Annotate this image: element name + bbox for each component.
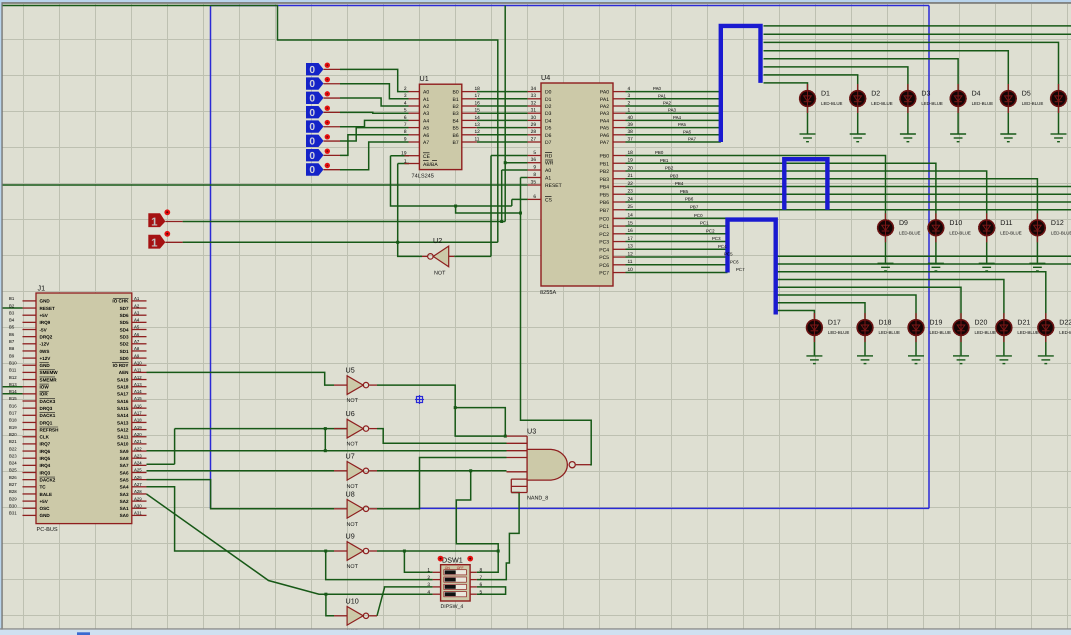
logic state 4 pin stub bbox=[324, 126, 341, 128]
svg-text:5: 5 bbox=[480, 589, 483, 595]
svg-text:IRQ4: IRQ4 bbox=[40, 463, 51, 468]
wire U9 output row bbox=[377, 550, 498, 552]
svg-text:ON: ON bbox=[445, 566, 451, 570]
wire PA bus exit 1 off-sheet bbox=[764, 33, 1071, 35]
wire U4 PC6 to bus bbox=[626, 264, 728, 266]
svg-text:PC5: PC5 bbox=[724, 252, 733, 257]
svg-text:6: 6 bbox=[533, 194, 536, 200]
svg-text:A5: A5 bbox=[423, 126, 429, 132]
DSW1 switch rockers bbox=[444, 570, 467, 597]
svg-text:30: 30 bbox=[531, 115, 537, 121]
svg-text:B18: B18 bbox=[9, 418, 17, 423]
svg-text:SA9: SA9 bbox=[120, 449, 129, 454]
U4 pin D0 stub bbox=[528, 91, 541, 93]
wire NAND_8 output to U4 A1 bbox=[521, 178, 592, 465]
svg-text:RESET: RESET bbox=[545, 183, 562, 189]
J1 pin B8 stub bbox=[23, 350, 37, 352]
J1 pin B9 stub bbox=[23, 357, 37, 359]
svg-text:PA1: PA1 bbox=[600, 97, 609, 103]
logic state input 0 pin dot bbox=[325, 62, 330, 67]
LED D18 anode stub bbox=[864, 313, 866, 320]
J1 pin A26 stub bbox=[132, 479, 147, 481]
wire LED D12 cathode to ground bbox=[1036, 236, 1038, 263]
logic state 0 pin stub bbox=[324, 68, 341, 70]
svg-text:D19: D19 bbox=[930, 320, 943, 327]
svg-text:B5: B5 bbox=[9, 325, 15, 330]
LED D19 anode stub bbox=[915, 313, 917, 320]
wire U5 net parallel jog to NAND in1 bbox=[455, 408, 505, 437]
wire J1 IOW pin B13 bbox=[3, 386, 23, 388]
svg-text:37: 37 bbox=[628, 136, 634, 142]
wire LED D18 cathode to ground bbox=[864, 336, 866, 356]
svg-text:3: 3 bbox=[628, 93, 631, 99]
wire U4 PB4 off-sheet bbox=[626, 186, 1071, 188]
svg-text:A29: A29 bbox=[134, 496, 142, 501]
svg-text:20: 20 bbox=[628, 165, 634, 171]
svg-text:PC7: PC7 bbox=[736, 267, 745, 272]
U1 pin A2 stub bbox=[409, 105, 420, 107]
wire U4 PA5 to bus bbox=[626, 127, 721, 129]
wire U4 PC2 to bus bbox=[626, 233, 728, 235]
J1 pin A20 stub bbox=[132, 436, 147, 438]
svg-text:B28: B28 bbox=[9, 489, 17, 494]
U4 pin PA6 stub bbox=[613, 134, 626, 136]
svg-text:5: 5 bbox=[404, 108, 407, 114]
svg-text:13: 13 bbox=[475, 122, 481, 128]
wire PA bus exit to LED D6 bbox=[764, 42, 1059, 90]
inverter U10 (NOT gate) bbox=[347, 607, 363, 626]
switch DSW1 DIPSW_4 body bbox=[441, 565, 471, 601]
inverter U9 (NOT gate) bbox=[347, 542, 363, 561]
J1 pin B6 stub bbox=[23, 336, 37, 338]
svg-text:LED-BLUE: LED-BLUE bbox=[930, 330, 952, 335]
svg-text:B8: B8 bbox=[9, 346, 15, 351]
svg-text:11: 11 bbox=[475, 136, 480, 142]
J1 pin B7 stub bbox=[23, 343, 37, 345]
wire U1 B4 to U4 D4 bbox=[477, 119, 528, 121]
svg-text:SA13: SA13 bbox=[117, 420, 129, 425]
svg-text:NOT: NOT bbox=[347, 398, 359, 404]
U1 pin CE stub bbox=[405, 155, 420, 157]
U4 pin PB2 stub bbox=[613, 170, 626, 172]
wire U4 PC7 to bus bbox=[626, 272, 728, 274]
svg-text:NOT: NOT bbox=[347, 442, 359, 448]
wire U4 PB1 to LED D10 bbox=[626, 163, 936, 219]
logic state input 3 (blue 0 box) bbox=[306, 106, 324, 118]
svg-text:LED-BLUE: LED-BLUE bbox=[899, 230, 921, 235]
logic state input 7 (blue 0 box) bbox=[306, 163, 324, 175]
U1 pin B6 stub bbox=[462, 134, 477, 136]
LED D12 anode stub bbox=[1036, 213, 1038, 220]
svg-text:B4: B4 bbox=[9, 318, 15, 323]
svg-text:A5: A5 bbox=[134, 325, 140, 330]
U1 pin B5 stub bbox=[462, 127, 477, 129]
svg-text:2: 2 bbox=[628, 100, 631, 106]
svg-text:0WS: 0WS bbox=[40, 349, 50, 354]
DSW1 pin numbers bbox=[427, 568, 482, 596]
wire U1 B0 to U4 D0 bbox=[477, 91, 528, 93]
svg-text:15: 15 bbox=[475, 108, 481, 114]
svg-text:SD1: SD1 bbox=[120, 349, 129, 354]
svg-text:A2: A2 bbox=[134, 303, 140, 308]
U1 pin A5 stub bbox=[409, 127, 420, 129]
U1 pin B3 stub bbox=[462, 112, 477, 114]
svg-text:NAND_8: NAND_8 bbox=[527, 496, 548, 502]
J1 pin A29 stub bbox=[132, 500, 147, 502]
svg-text:SA18: SA18 bbox=[117, 385, 129, 390]
U4 port wire net labels bbox=[653, 86, 745, 272]
svg-text:PB5: PB5 bbox=[680, 189, 689, 194]
buffer U1 74LS245 body bbox=[419, 84, 461, 169]
J1 pin B3 stub bbox=[23, 314, 37, 316]
U4 pin PC7 stub bbox=[613, 272, 626, 274]
U4 pin D6 stub bbox=[528, 134, 541, 136]
inverter U6 (NOT gate) bbox=[347, 419, 363, 438]
svg-text:PC3: PC3 bbox=[599, 240, 609, 246]
svg-text:SD5: SD5 bbox=[120, 320, 129, 325]
wire U4 A1 pin stub row bbox=[521, 177, 528, 179]
svg-text:DIPSW_4: DIPSW_4 bbox=[441, 604, 464, 610]
wire junction dots bbox=[324, 161, 522, 596]
LED D1 cathode stub bbox=[807, 107, 809, 114]
ground symbol for D4 bbox=[950, 134, 966, 142]
wire U5 output to NAND in1 bbox=[377, 385, 507, 436]
svg-text:LED-BLUE: LED-BLUE bbox=[949, 230, 971, 235]
LED D20 anode stub bbox=[960, 313, 962, 320]
svg-text:2: 2 bbox=[427, 575, 430, 581]
svg-text:B10: B10 bbox=[9, 360, 17, 365]
svg-text:SA15: SA15 bbox=[117, 406, 129, 411]
wire PA bus exit to LED D2 bbox=[764, 75, 858, 90]
svg-text:4: 4 bbox=[404, 100, 407, 106]
svg-text:PA6: PA6 bbox=[600, 133, 609, 139]
wire logic state 0 to U1 A0 bbox=[340, 69, 409, 91]
svg-text:A1: A1 bbox=[545, 176, 551, 182]
wire SA4/A27 to U9 input bbox=[147, 487, 335, 551]
svg-text:SA12: SA12 bbox=[117, 427, 129, 432]
svg-text:IRQ6: IRQ6 bbox=[40, 449, 51, 454]
wire U4 PC5 to bus bbox=[626, 256, 728, 258]
wire J1 RESET pin B2 bbox=[3, 307, 23, 309]
wire U1 B7 to U4 D7 bbox=[477, 141, 528, 143]
svg-text:PA3: PA3 bbox=[600, 111, 609, 117]
svg-text:-5V: -5V bbox=[40, 327, 48, 332]
logic state 2 pin stub bbox=[324, 97, 341, 99]
svg-text:A0: A0 bbox=[545, 168, 551, 174]
svg-text:DRQ3: DRQ3 bbox=[40, 406, 53, 411]
svg-text:3: 3 bbox=[404, 93, 407, 99]
svg-text:B20: B20 bbox=[9, 432, 17, 437]
LED D22 anode stub bbox=[1045, 313, 1047, 320]
bus PC (thick blue) bbox=[728, 220, 776, 315]
svg-text:PC0: PC0 bbox=[599, 216, 609, 222]
svg-text:OFF: OFF bbox=[457, 566, 464, 570]
J1 pin A22 stub bbox=[132, 450, 147, 452]
ground symbol for D19 bbox=[908, 356, 924, 364]
J1 pin A30 stub bbox=[132, 507, 147, 509]
svg-text:SD2: SD2 bbox=[120, 342, 129, 347]
svg-text:29: 29 bbox=[531, 122, 537, 128]
svg-text:B3: B3 bbox=[9, 310, 15, 315]
svg-text:D1: D1 bbox=[821, 91, 830, 98]
U4 pin D1 stub bbox=[528, 98, 541, 100]
wire U4 PA2 to bus bbox=[626, 105, 721, 107]
svg-text:A14: A14 bbox=[134, 389, 142, 394]
svg-text:A22: A22 bbox=[134, 446, 142, 451]
svg-text:LED-BLUE: LED-BLUE bbox=[972, 101, 994, 106]
DSW1 pin 3 stub bbox=[433, 586, 441, 588]
LED D17 (LED-BLUE) bbox=[806, 319, 822, 335]
U1 pin AB/BA stub bbox=[405, 163, 420, 165]
svg-text:39: 39 bbox=[628, 122, 634, 128]
wire logic probe 1 row bbox=[183, 221, 506, 223]
wire PC bus exit to LED D19 bbox=[776, 295, 916, 319]
svg-text:A26: A26 bbox=[134, 475, 142, 480]
svg-text:SA2: SA2 bbox=[120, 499, 129, 504]
logic probe 2 (red 1 box) bbox=[148, 235, 165, 249]
logic state input 3 pin dot bbox=[325, 105, 330, 110]
logic state input 5 pin dot bbox=[325, 134, 330, 139]
svg-text:PB7: PB7 bbox=[600, 208, 610, 214]
wire PA bus exit to LED D5 bbox=[764, 51, 1009, 91]
wire AEN to U5 input bbox=[147, 372, 335, 385]
svg-text:A4: A4 bbox=[423, 118, 429, 124]
U8 output stub bbox=[369, 508, 377, 510]
svg-text:17: 17 bbox=[628, 236, 634, 242]
svg-text:PC6: PC6 bbox=[599, 263, 609, 269]
svg-text:LED-BLUE: LED-BLUE bbox=[1059, 330, 1071, 335]
wire CS riser bbox=[511, 199, 513, 206]
svg-text:PB3: PB3 bbox=[670, 173, 679, 178]
U4 pin PA3 stub bbox=[613, 112, 626, 114]
svg-text:4: 4 bbox=[628, 86, 631, 92]
J1 pin B15 stub bbox=[23, 400, 37, 402]
svg-text:B14: B14 bbox=[9, 389, 17, 394]
svg-text:PC7: PC7 bbox=[599, 271, 609, 277]
wire logic state 2 to U1 A2 bbox=[340, 98, 409, 106]
svg-text:A0: A0 bbox=[423, 90, 429, 96]
wire U1 B2 to U4 D2 bbox=[477, 105, 528, 107]
svg-text:B13: B13 bbox=[9, 382, 17, 387]
svg-text:A11: A11 bbox=[134, 368, 142, 373]
svg-text:A17: A17 bbox=[134, 411, 142, 416]
J1 pin B31 stub bbox=[23, 514, 37, 516]
U4 pin D7 stub bbox=[528, 141, 541, 143]
wire PC bus exit to LED D21 bbox=[776, 280, 1004, 320]
J1 pin A14 stub bbox=[132, 393, 147, 395]
svg-text:PC2: PC2 bbox=[599, 232, 609, 238]
logic state 7 pin stub bbox=[324, 169, 341, 171]
svg-text:U2: U2 bbox=[433, 236, 442, 245]
J1 pin A6 stub bbox=[132, 336, 147, 338]
svg-text:SA17: SA17 bbox=[117, 392, 129, 397]
svg-text:OSC: OSC bbox=[40, 506, 51, 511]
svg-text:A16: A16 bbox=[134, 403, 142, 408]
J1 pin B14 stub bbox=[23, 393, 37, 395]
svg-text:B11: B11 bbox=[9, 368, 17, 373]
svg-text:NOT: NOT bbox=[347, 522, 359, 528]
svg-text:D6: D6 bbox=[545, 133, 552, 139]
svg-text:IOR: IOR bbox=[40, 392, 49, 397]
svg-text:7: 7 bbox=[404, 122, 407, 128]
logic state input 0 (blue 0 box) bbox=[306, 63, 324, 75]
wire U7 output branch to DSW1 pin 8 bbox=[456, 471, 498, 573]
svg-text:U9: U9 bbox=[346, 532, 355, 541]
LED D2 anode stub bbox=[857, 84, 859, 91]
svg-text:IOW: IOW bbox=[40, 385, 50, 390]
svg-text:B21: B21 bbox=[9, 439, 17, 444]
svg-text:11: 11 bbox=[628, 259, 633, 265]
ground symbol for D9 bbox=[878, 263, 894, 271]
J1 pin B18 stub bbox=[23, 421, 37, 423]
J1 pin A31 stub bbox=[132, 514, 147, 516]
svg-text:13: 13 bbox=[628, 244, 634, 250]
wire U4 PB6 off-sheet bbox=[626, 201, 1071, 203]
wire PA bus exit 0 off-sheet bbox=[764, 25, 1071, 27]
logic state 3 pin stub bbox=[324, 111, 341, 113]
wire RD vertical down to U2 input bbox=[490, 156, 492, 257]
svg-text:17: 17 bbox=[475, 93, 481, 99]
svg-text:A15: A15 bbox=[134, 396, 142, 401]
svg-text:0: 0 bbox=[309, 65, 315, 76]
svg-text:B19: B19 bbox=[9, 425, 17, 430]
J1 pin name labels bbox=[40, 299, 130, 519]
U1 pin B2 stub bbox=[462, 105, 477, 107]
wire U10 input drop from SA3 net bbox=[326, 594, 334, 616]
svg-text:B9: B9 bbox=[9, 353, 15, 358]
U1 pin B7 stub bbox=[462, 141, 477, 143]
U1 pin A6 stub bbox=[409, 134, 420, 136]
wire SA4 net branch to DSW1 pin 2 bbox=[326, 551, 433, 580]
svg-text:23: 23 bbox=[628, 189, 634, 195]
wire U6 output to NAND in2 bbox=[377, 429, 507, 444]
svg-text:GND: GND bbox=[40, 363, 51, 368]
wire logic state 1 to U1 A1 bbox=[340, 84, 409, 99]
svg-text:D3: D3 bbox=[545, 111, 552, 117]
U4 pin PC6 stub bbox=[613, 264, 626, 266]
svg-text:A7: A7 bbox=[134, 339, 140, 344]
wire U4 PA7 to bus bbox=[626, 141, 721, 143]
svg-text:B4: B4 bbox=[453, 118, 459, 124]
svg-text:2: 2 bbox=[404, 86, 407, 92]
svg-text:D3: D3 bbox=[921, 91, 930, 98]
svg-text:SD4: SD4 bbox=[120, 327, 129, 332]
wire A0 vertical to probe row bbox=[501, 170, 503, 222]
svg-text:LED-BLUE: LED-BLUE bbox=[921, 101, 943, 106]
wire PA bus exit to LED D1 bbox=[764, 83, 808, 90]
LED D20 (LED-BLUE) bbox=[953, 319, 969, 335]
svg-text:8: 8 bbox=[480, 568, 483, 574]
svg-text:D18: D18 bbox=[879, 320, 892, 327]
svg-text:U10: U10 bbox=[346, 596, 359, 605]
svg-text:A28: A28 bbox=[134, 489, 142, 494]
wire U1 B1 to U4 D1 bbox=[477, 98, 528, 100]
wire IOW net: top edge down to probe 1 row bbox=[504, 6, 506, 222]
svg-text:PB7: PB7 bbox=[690, 204, 699, 209]
J1 pin B28 stub bbox=[23, 493, 37, 495]
wire DSW1 pins 5-6 tie bbox=[477, 587, 506, 594]
svg-text:SA7: SA7 bbox=[120, 463, 129, 468]
svg-text:B5: B5 bbox=[453, 126, 459, 132]
J1 pin B1 stub bbox=[23, 300, 37, 302]
svg-text:PA1: PA1 bbox=[658, 93, 667, 98]
U4 pin CS stub bbox=[528, 198, 541, 200]
wire U7 output to NAND in5 bbox=[377, 470, 507, 472]
U10 input stub bbox=[334, 615, 347, 617]
svg-text:PC5: PC5 bbox=[599, 255, 609, 261]
connector J1 PC-BUS body bbox=[36, 293, 132, 524]
logic state 5 pin stub bbox=[324, 140, 341, 142]
wire U4 PB5 off-sheet bbox=[626, 193, 1071, 195]
svg-text:PB3: PB3 bbox=[600, 177, 610, 183]
svg-text:SA16: SA16 bbox=[117, 399, 129, 404]
wire U4 RESET long row bbox=[3, 184, 528, 186]
svg-text:8: 8 bbox=[404, 129, 407, 135]
svg-text:NOT: NOT bbox=[347, 564, 359, 570]
wire LED D10 cathode to ground bbox=[935, 236, 937, 263]
DSW1 pin 1 stub bbox=[433, 571, 441, 573]
svg-text:U4: U4 bbox=[541, 73, 550, 82]
J1 pin B25 stub bbox=[23, 472, 37, 474]
svg-text:GND: GND bbox=[40, 513, 51, 518]
LED D6 anode stub bbox=[1058, 84, 1060, 91]
svg-text:D17: D17 bbox=[828, 320, 841, 327]
LED D21 cathode stub bbox=[1003, 336, 1005, 343]
svg-text:B24: B24 bbox=[9, 461, 17, 466]
svg-text:D9: D9 bbox=[899, 220, 908, 227]
wire logic state 7 to U1 A7 bbox=[340, 142, 409, 170]
svg-text:18: 18 bbox=[628, 150, 634, 156]
LED D9 anode stub bbox=[885, 213, 887, 220]
svg-text:PC1: PC1 bbox=[599, 224, 609, 230]
wire LED D19 cathode to ground bbox=[915, 336, 917, 356]
U4 pin PB5 stub bbox=[613, 193, 626, 195]
wire U4 PA4 to bus bbox=[626, 119, 721, 121]
svg-text:SA8: SA8 bbox=[120, 456, 129, 461]
logic state input 1 pin dot bbox=[325, 77, 330, 82]
LED D12 cathode stub bbox=[1036, 236, 1038, 243]
LED D22 (LED-BLUE) bbox=[1038, 319, 1054, 335]
wire SA5/A26 to U8 input bbox=[147, 480, 335, 509]
svg-text:PB6: PB6 bbox=[685, 197, 694, 202]
svg-text:PA2: PA2 bbox=[663, 101, 672, 106]
svg-text:B17: B17 bbox=[9, 411, 17, 416]
LED D12 (LED-BLUE) bbox=[1029, 220, 1045, 236]
wire AB/BA vertical to probe 2 row bbox=[397, 164, 399, 243]
logic state 1 pin stub bbox=[324, 83, 341, 85]
LED D2 (LED-BLUE) bbox=[850, 90, 866, 106]
svg-text:DACK1: DACK1 bbox=[40, 413, 56, 418]
svg-text:IRQ9: IRQ9 bbox=[40, 320, 51, 325]
svg-text:DACK2: DACK2 bbox=[40, 477, 56, 482]
svg-text:B6: B6 bbox=[9, 332, 15, 337]
wire U1 B5 to U4 D5 bbox=[477, 127, 528, 129]
svg-text:B27: B27 bbox=[9, 482, 17, 487]
svg-text:5: 5 bbox=[533, 150, 536, 156]
svg-text:A8: A8 bbox=[134, 346, 140, 351]
svg-text:-12V: -12V bbox=[40, 342, 51, 347]
wire logic state 6 to U1 A6 bbox=[340, 135, 409, 156]
svg-text:28: 28 bbox=[531, 129, 537, 135]
svg-text:PA0: PA0 bbox=[600, 90, 609, 96]
svg-text:25: 25 bbox=[628, 204, 634, 210]
wire U4 PC0 to bus bbox=[626, 217, 728, 219]
svg-text:0: 0 bbox=[309, 151, 315, 162]
svg-text:0: 0 bbox=[309, 79, 315, 90]
svg-text:16: 16 bbox=[628, 228, 634, 234]
svg-text:PA0: PA0 bbox=[653, 86, 662, 91]
U4 pin PB7 stub bbox=[613, 209, 626, 211]
